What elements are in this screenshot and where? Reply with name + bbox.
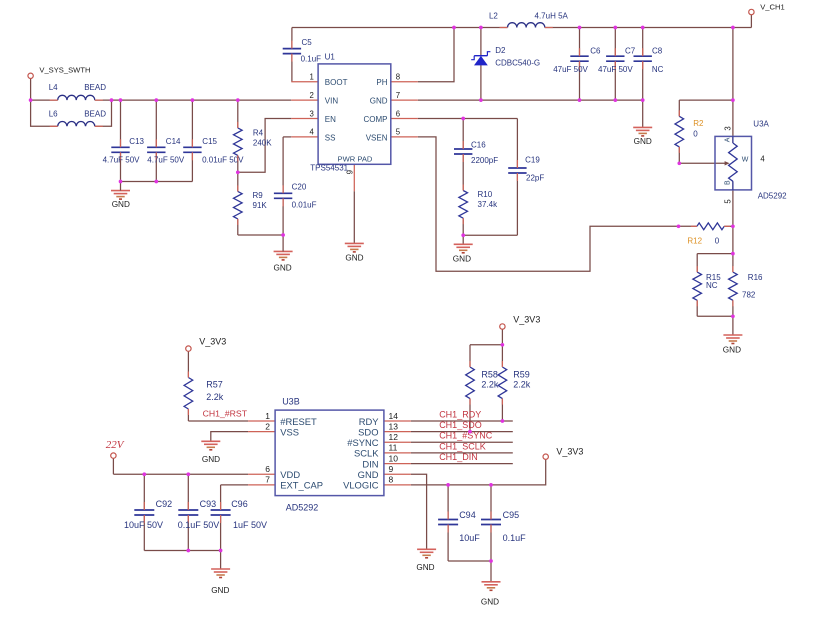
wire C16 R10 column — [462, 119, 464, 236]
svg-text:U3B: U3B — [282, 397, 300, 407]
svg-text:2.2k: 2.2k — [206, 392, 224, 402]
wire COMP net — [418, 118, 518, 120]
wire top rail right of L2 — [545, 15, 752, 28]
wire cap gnd rail — [144, 551, 220, 570]
capacitor C16 — [454, 141, 498, 166]
svg-text:V_3V3: V_3V3 — [556, 447, 583, 457]
svg-text:GND: GND — [358, 469, 379, 480]
svg-text:10: 10 — [389, 453, 399, 463]
wire C8 column — [642, 28, 644, 101]
svg-text:0.1uF: 0.1uF — [503, 533, 527, 543]
svg-text:SCLK: SCLK — [354, 448, 379, 459]
ground C20 — [273, 235, 292, 272]
svg-text:10uF: 10uF — [459, 533, 480, 543]
wire VLOGIC net — [411, 460, 546, 485]
wire VIN rail — [95, 99, 291, 101]
net label CH1_#SYNC — [439, 431, 493, 441]
wire R58 leads — [469, 345, 471, 432]
svg-text:91K: 91K — [253, 201, 268, 210]
svg-text:8: 8 — [396, 73, 400, 82]
capacitor C14 — [147, 137, 185, 165]
svg-text:GND: GND — [481, 597, 499, 606]
wire SS net C20 column — [283, 137, 291, 235]
wire R59 leads — [501, 345, 503, 421]
svg-text:22V: 22V — [106, 439, 125, 451]
svg-text:#RESET: #RESET — [280, 416, 317, 427]
svg-text:D2: D2 — [495, 46, 506, 55]
svg-text:SDO: SDO — [358, 426, 378, 437]
wire C96 column — [221, 485, 249, 551]
capacitor C93 — [178, 499, 220, 530]
wire C94 C95 gnd rail — [448, 561, 491, 582]
svg-text:DIN: DIN — [362, 458, 378, 469]
wire C6 column — [579, 28, 581, 101]
svg-text:4.7uF 50V: 4.7uF 50V — [147, 155, 185, 164]
resistor R59 — [498, 361, 531, 405]
svg-text:VLOGIC: VLOGIC — [343, 480, 379, 491]
svg-text:C92: C92 — [156, 499, 173, 509]
svg-text:R10: R10 — [478, 190, 493, 199]
wire R57 column — [188, 351, 248, 421]
svg-text:L6: L6 — [49, 109, 58, 118]
svg-text:4: 4 — [309, 128, 314, 137]
svg-text:AD5292: AD5292 — [286, 502, 319, 512]
capacitor C95 — [481, 510, 526, 543]
wire VSS net — [211, 432, 248, 442]
svg-text:VSEN: VSEN — [366, 133, 388, 142]
svg-text:VSS: VSS — [280, 426, 299, 437]
svg-text:C8: C8 — [652, 47, 663, 56]
svg-text:4.7uH 5A: 4.7uH 5A — [535, 12, 569, 21]
svg-text:V_3V3: V_3V3 — [513, 315, 540, 325]
wire C13 column — [120, 100, 122, 181]
svg-text:V_3V3: V_3V3 — [199, 336, 226, 346]
wire L6 loop — [31, 100, 112, 126]
svg-text:240K: 240K — [253, 138, 272, 147]
capacitor C5 — [283, 38, 321, 63]
svg-text:BEAD: BEAD — [84, 109, 106, 118]
svg-text:V_CH1: V_CH1 — [760, 2, 784, 11]
capacitor C19 — [508, 156, 544, 183]
svg-text:5: 5 — [396, 128, 401, 137]
potentiometer U3A AD5292 — [715, 120, 787, 204]
port V_SYS_SWTH — [28, 65, 91, 78]
svg-text:GND: GND — [723, 346, 741, 355]
resistor R16 — [729, 266, 763, 306]
wire V_SYS_SWTH riser — [30, 79, 32, 101]
wire VIN rail left — [31, 99, 58, 101]
svg-text:C13: C13 — [129, 137, 144, 146]
svg-text:GND: GND — [370, 97, 388, 106]
svg-text:NC: NC — [652, 65, 664, 74]
capacitor C20 — [274, 182, 317, 209]
svg-text:R16: R16 — [748, 273, 763, 282]
op-amp U3B AD5292 — [265, 397, 398, 513]
svg-text:CH1_RDY: CH1_RDY — [439, 410, 481, 420]
net label CH1_#RST — [203, 409, 248, 419]
resistor R9 — [234, 185, 268, 225]
resistor R12 — [687, 223, 730, 246]
svg-text:R9: R9 — [253, 191, 264, 200]
svg-text:TPS54531: TPS54531 — [310, 163, 348, 172]
svg-text:GND: GND — [211, 586, 229, 595]
svg-text:6: 6 — [265, 464, 270, 474]
net label CH1_RDY — [439, 410, 481, 420]
svg-text:C6: C6 — [590, 47, 601, 56]
wire R2 branch — [679, 100, 733, 163]
svg-text:4: 4 — [760, 154, 765, 163]
svg-text:C93: C93 — [200, 499, 217, 509]
svg-text:2: 2 — [309, 91, 313, 100]
wire divider link — [732, 226, 734, 253]
svg-text:CH1_#RST: CH1_#RST — [203, 409, 248, 419]
wire C14 column — [155, 100, 157, 181]
wire R9 leads — [238, 172, 283, 235]
svg-text:PWR PAD: PWR PAD — [338, 154, 373, 163]
svg-text:R59: R59 — [513, 369, 530, 379]
svg-text:3: 3 — [309, 109, 313, 118]
svg-text:13: 13 — [389, 421, 399, 431]
wire 22V VDD rail — [113, 458, 248, 474]
svg-text:11: 11 — [389, 443, 398, 453]
capacitor C13 — [103, 137, 145, 165]
wire GND net rail — [418, 99, 643, 101]
svg-text:PH: PH — [376, 78, 387, 87]
diode D2 CDBC540-G — [471, 46, 540, 67]
svg-text:U1: U1 — [325, 53, 336, 62]
resistor R58 — [466, 361, 499, 405]
svg-text:6: 6 — [396, 109, 400, 118]
ground C94 C95 — [481, 582, 501, 607]
port V_3V3 pullups — [500, 315, 541, 330]
svg-text:C94: C94 — [459, 510, 476, 520]
svg-text:CH1_DIN: CH1_DIN — [439, 452, 478, 462]
svg-text:B: B — [725, 180, 732, 185]
wire V_CH1 column — [732, 28, 734, 144]
svg-text:CH1_#SYNC: CH1_#SYNC — [439, 431, 493, 441]
ground output — [633, 127, 652, 146]
wire CH1_SCLK net — [411, 452, 513, 454]
svg-text:22pF: 22pF — [526, 174, 544, 183]
svg-text:0: 0 — [693, 130, 698, 139]
svg-text:C96: C96 — [231, 499, 248, 509]
svg-text:GND: GND — [112, 200, 130, 209]
svg-text:C95: C95 — [503, 510, 520, 520]
svg-text:4.7uF 50V: 4.7uF 50V — [103, 155, 141, 164]
port V_3V3 R57 — [186, 336, 227, 351]
svg-text:14: 14 — [389, 411, 399, 421]
port V_CH1 — [749, 2, 785, 14]
capacitor C96 — [211, 499, 267, 530]
wire PH riser — [418, 28, 454, 82]
svg-text:C16: C16 — [471, 141, 486, 150]
svg-text:W: W — [742, 156, 749, 163]
capacitor C8 — [634, 47, 664, 74]
wire R15 branch — [697, 254, 733, 317]
wire R16 leads — [732, 254, 734, 317]
svg-text:C7: C7 — [625, 47, 636, 56]
svg-text:7: 7 — [265, 475, 270, 485]
svg-text:5: 5 — [724, 199, 733, 204]
svg-text:EN: EN — [325, 115, 336, 124]
capacitor C6 — [553, 47, 601, 74]
svg-text:9: 9 — [389, 464, 394, 474]
wire C15 column — [191, 100, 193, 181]
wire R58 R59 top rail — [470, 329, 502, 345]
ground PWR PAD — [345, 243, 364, 262]
svg-text:GND: GND — [453, 254, 471, 263]
ground divider — [723, 335, 743, 355]
wire CH1_SDO net — [411, 431, 513, 433]
svg-text:A: A — [725, 137, 732, 142]
ground VSS — [201, 441, 220, 464]
svg-text:1: 1 — [309, 73, 313, 82]
inductor L4 — [49, 83, 107, 100]
svg-text:R4: R4 — [253, 129, 264, 138]
svg-text:CH1_SDO: CH1_SDO — [439, 420, 482, 430]
wire C95 column — [490, 485, 492, 561]
svg-text:EXT_CAP: EXT_CAP — [280, 480, 323, 491]
svg-text:3: 3 — [724, 126, 733, 130]
wire EN net — [238, 119, 291, 173]
ground pin9 — [416, 549, 436, 572]
svg-text:NC: NC — [706, 281, 718, 290]
wire top rail left of L2 — [292, 27, 508, 29]
wire D2 column — [480, 28, 482, 101]
capacitor C94 — [438, 510, 480, 543]
svg-text:C15: C15 — [202, 137, 217, 146]
wire C19 column — [463, 119, 517, 236]
svg-text:R58: R58 — [481, 369, 498, 379]
wire C93 column — [187, 474, 189, 550]
ground input caps — [111, 182, 130, 210]
wire R4 leads — [237, 100, 239, 172]
wire C94 column — [447, 485, 449, 561]
wire CH1_RDY net — [411, 420, 513, 422]
svg-text:GND: GND — [202, 455, 220, 464]
resistor R10 — [459, 185, 498, 225]
svg-text:9: 9 — [346, 170, 355, 174]
svg-text:47uF 50V: 47uF 50V — [598, 65, 633, 74]
resistor R57 — [184, 372, 224, 416]
svg-text:47uF 50V: 47uF 50V — [553, 65, 588, 74]
svg-text:0.1uF 50V: 0.1uF 50V — [178, 520, 220, 530]
wire input gnd rail — [121, 181, 193, 183]
svg-text:C20: C20 — [292, 182, 307, 191]
svg-text:BEAD: BEAD — [84, 83, 106, 92]
inductor L6 — [49, 109, 107, 126]
port V_3V3 VLOGIC — [543, 447, 583, 460]
svg-text:BOOT: BOOT — [325, 78, 348, 87]
svg-text:CH1_SCLK: CH1_SCLK — [439, 442, 486, 452]
wire CH1_#SYNC net — [411, 441, 513, 443]
svg-text:2.2k: 2.2k — [513, 380, 531, 390]
svg-text:0.1uF: 0.1uF — [301, 55, 322, 64]
svg-text:GND: GND — [634, 137, 652, 146]
capacitor C15 — [183, 137, 244, 165]
capacitor C7 — [598, 47, 636, 74]
net label CH1_SCLK — [439, 442, 486, 452]
svg-text:CDBC540-G: CDBC540-G — [495, 58, 540, 67]
svg-text:2: 2 — [265, 421, 270, 431]
svg-text:RDY: RDY — [359, 416, 380, 427]
svg-text:C14: C14 — [166, 137, 181, 146]
resistor R4 — [234, 122, 273, 161]
svg-text:R2: R2 — [693, 119, 704, 128]
svg-text:GND: GND — [345, 254, 363, 263]
ground compensation — [453, 244, 473, 263]
wire C92 column — [143, 474, 145, 550]
svg-text:8: 8 — [389, 475, 394, 485]
svg-text:L4: L4 — [49, 83, 58, 92]
svg-text:1: 1 — [265, 411, 270, 421]
svg-text:GND: GND — [416, 563, 434, 572]
resistor R15 — [693, 266, 721, 306]
U3B pin stubs — [248, 421, 411, 485]
wire gnd stem divider — [732, 316, 734, 335]
net label CH1_SDO — [439, 420, 482, 430]
svg-text:VDD: VDD — [280, 469, 300, 480]
svg-text:782: 782 — [742, 290, 756, 299]
inductor L2 — [489, 12, 569, 28]
svg-text:L2: L2 — [489, 12, 498, 21]
wire C7 column — [614, 28, 616, 101]
svg-text:0: 0 — [715, 236, 720, 245]
svg-text:GND: GND — [273, 263, 291, 272]
svg-text:10uF 50V: 10uF 50V — [124, 520, 163, 530]
port 22V — [106, 439, 125, 458]
svg-text:SS: SS — [325, 133, 336, 142]
resistor R2 — [675, 110, 704, 153]
svg-text:C5: C5 — [302, 38, 313, 47]
svg-text:1uF 50V: 1uF 50V — [233, 520, 267, 530]
wire R12 right lead — [724, 225, 733, 227]
wire pin9 gnd — [411, 474, 427, 549]
svg-text:AD5292: AD5292 — [758, 191, 787, 200]
svg-text:COMP: COMP — [364, 115, 388, 124]
svg-text:R57: R57 — [206, 379, 223, 389]
ground bypass caps — [211, 569, 230, 595]
svg-text:VIN: VIN — [325, 97, 339, 106]
svg-text:0.01uF: 0.01uF — [292, 201, 317, 210]
capacitor C92 — [124, 499, 172, 530]
net label CH1_DIN — [439, 452, 478, 462]
svg-text:U3A: U3A — [753, 120, 769, 129]
svg-text:37.4k: 37.4k — [478, 200, 499, 209]
wire pot bottom — [732, 181, 734, 226]
wire C5 column — [291, 28, 293, 82]
wire wiper link — [679, 162, 725, 164]
U1 pin stubs — [291, 82, 418, 244]
wire gnd stem right — [642, 100, 644, 127]
svg-text:7: 7 — [396, 91, 400, 100]
svg-text:2200pF: 2200pF — [471, 156, 498, 165]
op-amp U1 TPS54531 — [309, 53, 400, 175]
svg-text:V_SYS_SWTH: V_SYS_SWTH — [39, 65, 90, 74]
svg-text:R12: R12 — [687, 237, 702, 246]
svg-text:C19: C19 — [525, 156, 540, 165]
svg-text:12: 12 — [389, 432, 399, 442]
svg-text:2.2k: 2.2k — [481, 380, 499, 390]
wire VSEN net — [418, 137, 697, 271]
svg-text:#SYNC: #SYNC — [347, 437, 378, 448]
wire gnd stem C16 — [462, 235, 464, 244]
wire CH1_DIN net — [411, 463, 513, 465]
